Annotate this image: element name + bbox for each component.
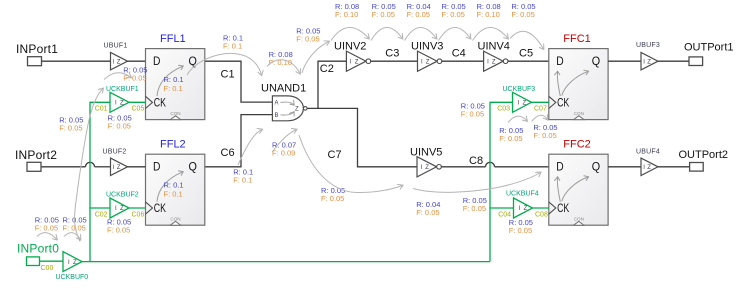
svg-text:Q: Q	[189, 56, 197, 68]
svg-text:Z: Z	[355, 59, 359, 65]
annotation arrow to FFC2 D	[413, 173, 541, 193]
svg-text:INPort2: INPort2	[15, 148, 57, 162]
wire net C6 FFL2/Q to UNAND1/B	[205, 115, 273, 167]
clock buffer UCKBUF3	[513, 92, 532, 112]
svg-text:C2: C2	[320, 63, 334, 75]
svg-text:Z: Z	[647, 59, 651, 65]
svg-text:FFL1: FFL1	[160, 33, 186, 45]
svg-text:Z: Z	[117, 165, 121, 171]
clock buffer UCKBUF1	[110, 92, 129, 112]
annotation arrow hop 3	[405, 27, 437, 40]
wire net INPort2 to UBUF2	[41, 166, 86, 168]
annotation arrow to FFL1 D	[104, 73, 131, 80]
inverter UINV3	[418, 51, 438, 71]
inverter UINV4	[484, 51, 504, 71]
svg-text:UBUF3: UBUF3	[636, 42, 660, 49]
clock net vertical riser right	[490, 102, 513, 261]
flip-flop FFC2	[549, 154, 608, 225]
annotation arrow to UNAND1 B	[267, 60, 300, 74]
wire net UBUF3 to OUTPort1	[658, 60, 689, 62]
wire net C7 UNAND1/Z to UINV5	[318, 108, 417, 166]
svg-text:F: 0.1: F: 0.1	[233, 176, 252, 185]
annotation arrow to FFC1 CK b	[532, 115, 548, 121]
annotation arrow to UINV5	[299, 135, 403, 193]
clock wire UCKBUF4 to FFC2 CK	[533, 207, 549, 209]
svg-text:Q: Q	[592, 162, 600, 174]
svg-text:Z: Z	[120, 101, 124, 107]
svg-text:UCKBUF2: UCKBUF2	[106, 192, 139, 199]
annotation arrow clock b	[64, 233, 81, 240]
svg-text:Z: Z	[492, 59, 496, 65]
annotation arrow to UNAND1 A	[187, 53, 262, 75]
wire net INPort1 to UBUF1	[42, 60, 111, 62]
svg-text:R: 0.1: R: 0.1	[164, 181, 184, 190]
svg-text:CON: CON	[574, 217, 584, 222]
annotation arrow hop 2	[371, 27, 403, 40]
wire net UBUF1 to FFL1 D	[128, 60, 146, 62]
annotation arrow hop 5	[473, 27, 509, 40]
svg-text:UCKBUF4: UCKBUF4	[506, 190, 539, 197]
inverter UINV5	[417, 157, 437, 177]
wire net C2 UNAND1/Z to UINV2	[307, 61, 346, 108]
svg-text:C3: C3	[385, 48, 399, 60]
svg-text:C6: C6	[221, 147, 235, 159]
svg-text:F: 0.05: F: 0.05	[509, 226, 532, 235]
clock net vertical riser left	[90, 102, 110, 261]
clock wire UCKBUF3 to FFC1 CK	[532, 101, 549, 103]
svg-text:F: 0.05: F: 0.05	[35, 223, 58, 232]
svg-text:CON: CON	[170, 217, 180, 222]
svg-text:Z: Z	[523, 101, 527, 107]
svg-text:F: 0.10: F: 0.10	[477, 10, 500, 19]
svg-text:UCKBUF3: UCKBUF3	[503, 86, 536, 93]
flip-flop FFL1	[146, 49, 205, 120]
svg-text:UBUF1: UBUF1	[104, 42, 128, 49]
svg-text:F: 0.05: F: 0.05	[296, 35, 319, 44]
input port INPort2	[27, 162, 41, 171]
annotation arrow second	[272, 130, 297, 153]
svg-text:Z: Z	[425, 165, 429, 171]
wire net FFC2/Q to UBUF4	[608, 166, 641, 168]
annotation arrow hop 4	[439, 27, 471, 40]
svg-text:C5: C5	[519, 48, 533, 60]
clock net bus C05	[82, 261, 490, 263]
wire hop over clock net	[86, 162, 95, 166]
svg-text:Z: Z	[647, 165, 651, 171]
wire net C3	[371, 60, 418, 62]
svg-text:UCKBUF0: UCKBUF0	[56, 274, 89, 281]
svg-text:F: 0.1: F: 0.1	[164, 190, 183, 199]
svg-text:UBUF2: UBUF2	[103, 148, 127, 155]
svg-text:F: 0.05: F: 0.05	[461, 109, 484, 118]
annotation arrow clock a	[37, 233, 57, 240]
svg-text:OUTPort1: OUTPort1	[684, 41, 734, 53]
annotation arrow chain start	[302, 42, 329, 74]
svg-text:F: 0.05: F: 0.05	[63, 223, 86, 232]
wire net C1 FFL1/Q to UNAND1/A	[205, 61, 273, 102]
wire net C8 UINV5 to FFC2 D	[441, 166, 485, 168]
svg-text:F: 0.05: F: 0.05	[511, 10, 534, 19]
svg-text:CK: CK	[154, 97, 166, 109]
wire net UBUF4 to OUTPort2	[658, 166, 690, 168]
svg-text:Z: Z	[117, 59, 121, 65]
flip-flop FFC1	[549, 49, 608, 120]
svg-text:F: 0.05: F: 0.05	[442, 10, 465, 19]
svg-text:Q: Q	[189, 162, 197, 174]
annotation arrow to FFC1 D	[510, 31, 544, 49]
svg-text:INPort1: INPort1	[16, 42, 58, 56]
flip-flop FFL2	[146, 154, 205, 225]
buffer UBUF3	[641, 52, 658, 69]
wire net C5 UINV4 to FFC1 D	[508, 60, 549, 62]
svg-text:C02: C02	[95, 211, 108, 218]
svg-text:D: D	[556, 56, 563, 68]
svg-text:F: 0.10: F: 0.10	[335, 10, 358, 19]
svg-text:Z: Z	[524, 206, 528, 212]
svg-text:Z: Z	[295, 107, 299, 113]
clock wire INPort0 to UCKBUF0	[40, 260, 64, 262]
annotation arrow to UNAND1 B lower	[238, 130, 262, 166]
svg-text:D: D	[153, 56, 160, 68]
input port INPort0	[27, 257, 40, 266]
svg-text:A: A	[275, 100, 279, 106]
svg-text:FFC2: FFC2	[563, 139, 591, 151]
svg-text:UINV3: UINV3	[411, 41, 443, 53]
nand gate UNAND1	[272, 96, 303, 121]
svg-text:C7: C7	[328, 149, 342, 161]
svg-text:OUTPort2: OUTPort2	[679, 149, 729, 161]
svg-text:C00: C00	[41, 265, 54, 272]
svg-text:C8: C8	[469, 155, 483, 167]
svg-text:Z: Z	[73, 260, 77, 266]
clock buffer UCKBUF4	[514, 198, 533, 218]
svg-text:UINV2: UINV2	[334, 41, 366, 53]
svg-text:INPort0: INPort0	[17, 242, 59, 256]
svg-text:CK: CK	[557, 97, 569, 109]
svg-text:C07: C07	[534, 106, 547, 113]
wire net C4	[442, 60, 484, 62]
svg-text:C05: C05	[132, 106, 145, 113]
output port OUTPort2	[690, 163, 704, 172]
svg-text:UNAND1: UNAND1	[261, 82, 306, 94]
nand internal arrow A-Z	[281, 102, 295, 105]
svg-text:R: 0.1: R: 0.1	[164, 75, 184, 84]
svg-text:C1: C1	[221, 68, 235, 80]
svg-text:C03: C03	[497, 106, 510, 113]
svg-text:CK: CK	[557, 203, 569, 215]
clock wire UCKBUF1 to FFL1 CK	[129, 101, 146, 103]
wire net UBUF2 to FFL2 D	[128, 166, 146, 168]
input port INPort1	[28, 57, 42, 66]
svg-text:UBUF4: UBUF4	[636, 148, 660, 155]
svg-text:B: B	[275, 113, 279, 119]
svg-text:CK: CK	[154, 203, 166, 215]
svg-text:UINV5: UINV5	[410, 146, 442, 158]
svg-text:UINV4: UINV4	[478, 41, 510, 53]
nand internal arrow B-Z	[281, 112, 295, 115]
svg-text:F: 0.05: F: 0.05	[59, 124, 82, 133]
wire hop over clock net	[486, 162, 495, 166]
annotation arrow to FFC1 CK a	[508, 116, 527, 122]
svg-text:F: 0.05: F: 0.05	[499, 134, 522, 143]
svg-text:F: 0.1: F: 0.1	[223, 42, 242, 51]
wire net FFC1/Q to UBUF3	[608, 60, 641, 62]
svg-text:F: 0.1: F: 0.1	[164, 84, 183, 93]
annotation arrow to UCKBUF1	[75, 89, 103, 242]
svg-text:D: D	[556, 162, 563, 174]
clock buffer UCKBUF0	[63, 252, 82, 272]
svg-text:C01: C01	[95, 106, 108, 113]
buffer UBUF1	[111, 52, 128, 69]
svg-text:UCKBUF1: UCKBUF1	[106, 86, 139, 93]
svg-text:Q: Q	[592, 56, 600, 68]
clock buffer UCKBUF2	[110, 198, 129, 218]
inverter UINV2	[346, 51, 366, 71]
clock net stub to UCKBUF2	[90, 207, 110, 209]
buffer UBUF4	[641, 158, 658, 176]
svg-text:FFL2: FFL2	[160, 139, 186, 151]
svg-text:CON: CON	[574, 111, 584, 116]
svg-text:C06: C06	[132, 211, 145, 218]
svg-text:F: 0.09: F: 0.09	[272, 149, 295, 158]
svg-text:CON: CON	[170, 111, 180, 116]
svg-text:F: 0.05: F: 0.05	[372, 10, 395, 19]
svg-text:C4: C4	[452, 48, 466, 60]
clock net stub to UCKBUF4	[490, 207, 514, 209]
svg-text:FFC1: FFC1	[563, 33, 591, 45]
svg-text:F: 0.05: F: 0.05	[533, 131, 556, 140]
svg-text:F: 0.05: F: 0.05	[321, 194, 344, 203]
buffer UBUF2	[111, 158, 128, 176]
svg-text:F: 0.05: F: 0.05	[108, 122, 131, 131]
svg-text:F: 0.05: F: 0.05	[416, 208, 439, 217]
svg-text:C08: C08	[535, 211, 548, 218]
svg-text:Z: Z	[426, 59, 430, 65]
svg-text:F: 0.05: F: 0.05	[107, 225, 130, 234]
annotation arrow hop 1	[331, 27, 369, 40]
svg-text:F: 0.05: F: 0.05	[463, 204, 486, 213]
svg-text:D: D	[153, 162, 160, 174]
svg-text:F: 0.05: F: 0.05	[407, 10, 430, 19]
svg-text:Z: Z	[120, 206, 124, 212]
clock wire UCKBUF2 to FFL2 CK	[129, 207, 146, 209]
output port OUTPort1	[689, 57, 703, 66]
